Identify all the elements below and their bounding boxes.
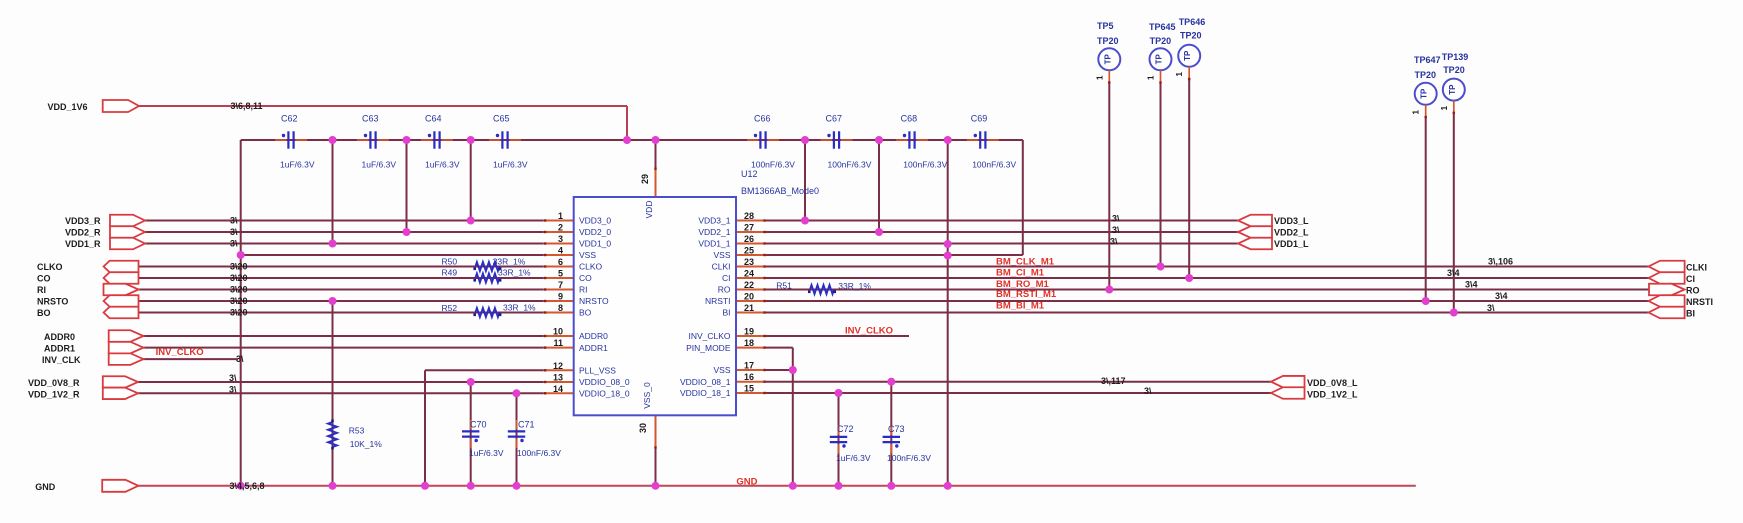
svg-text:R50: R50 (442, 257, 458, 267)
svg-text:6: 6 (558, 257, 563, 267)
svg-text:INV_CLKO: INV_CLKO (156, 347, 204, 358)
svg-text:3\: 3\ (230, 239, 238, 249)
svg-text:1uF/6.3V: 1uF/6.3V (493, 160, 528, 170)
svg-text:TP20: TP20 (1097, 36, 1119, 46)
svg-text:27: 27 (744, 223, 754, 233)
svg-text:GND: GND (35, 482, 56, 492)
svg-text:CI: CI (722, 273, 731, 283)
svg-text:GND: GND (736, 477, 757, 488)
svg-text:3\20: 3\20 (230, 285, 248, 295)
svg-text:19: 19 (744, 327, 754, 337)
svg-text:VDD3_0: VDD3_0 (579, 216, 611, 226)
svg-text:2: 2 (558, 223, 563, 233)
svg-text:ADDR0: ADDR0 (579, 331, 608, 341)
svg-text:TP: TP (1183, 50, 1192, 61)
svg-text:24: 24 (744, 269, 754, 279)
svg-text:18: 18 (744, 338, 754, 348)
svg-text:TP20: TP20 (1150, 36, 1172, 46)
svg-text:ADDR1: ADDR1 (579, 343, 608, 353)
svg-text:C70: C70 (470, 420, 487, 430)
svg-text:PLL_VSS: PLL_VSS (579, 366, 616, 376)
svg-text:3\: 3\ (230, 227, 238, 237)
svg-text:PIN_MODE: PIN_MODE (686, 343, 731, 353)
svg-text:3\: 3\ (229, 384, 237, 394)
svg-text:TP20: TP20 (1415, 70, 1437, 80)
svg-text:VDD1_L: VDD1_L (1274, 239, 1309, 249)
svg-text:VSS: VSS (713, 365, 730, 375)
svg-text:3\,117: 3\,117 (1101, 376, 1126, 386)
svg-text:33R_1%: 33R_1% (838, 281, 871, 291)
svg-text:3\: 3\ (1112, 225, 1120, 235)
svg-text:100nF/6.3V: 100nF/6.3V (828, 160, 872, 170)
svg-text:3: 3 (558, 234, 563, 244)
svg-text:NRSTO: NRSTO (579, 296, 609, 306)
svg-text:CLKO: CLKO (37, 262, 63, 272)
svg-text:1: 1 (1175, 72, 1184, 77)
svg-text:VDD_0V8_R: VDD_0V8_R (28, 378, 80, 388)
svg-text:C67: C67 (826, 114, 843, 124)
svg-text:VDD_1V6: VDD_1V6 (48, 102, 88, 112)
svg-text:20: 20 (744, 292, 754, 302)
svg-text:TP647: TP647 (1414, 55, 1441, 65)
svg-text:8: 8 (558, 303, 563, 313)
svg-text:BM_RO_M1: BM_RO_M1 (996, 279, 1050, 290)
svg-text:R49: R49 (442, 268, 458, 278)
svg-text:33R_1%: 33R_1% (503, 303, 536, 313)
svg-text:VDD2_1: VDD2_1 (698, 227, 730, 237)
svg-text:TP646: TP646 (1179, 17, 1206, 27)
svg-text:TP: TP (1103, 54, 1112, 65)
svg-text:13: 13 (553, 373, 563, 383)
svg-text:3\: 3\ (230, 216, 238, 226)
svg-text:TP139: TP139 (1442, 52, 1469, 62)
svg-text:TP645: TP645 (1149, 22, 1176, 32)
svg-text:1uF/6.3V: 1uF/6.3V (836, 453, 871, 463)
svg-text:100nF/6.3V: 100nF/6.3V (887, 453, 931, 463)
svg-text:R52: R52 (442, 303, 458, 313)
svg-text:3\20: 3\20 (230, 308, 248, 318)
svg-text:C64: C64 (425, 114, 442, 124)
svg-text:11: 11 (553, 338, 563, 348)
svg-text:C66: C66 (754, 114, 771, 124)
svg-text:VDD1_1: VDD1_1 (698, 239, 730, 249)
svg-text:1uF/6.3V: 1uF/6.3V (425, 160, 460, 170)
svg-text:C68: C68 (901, 114, 918, 124)
svg-text:U12: U12 (741, 169, 758, 179)
svg-text:22: 22 (744, 280, 754, 290)
svg-text:VDD_1V2_R: VDD_1V2_R (28, 390, 80, 400)
svg-text:CLKI: CLKI (712, 262, 731, 272)
svg-text:3\: 3\ (229, 373, 237, 383)
svg-text:NRSTI: NRSTI (1686, 297, 1713, 307)
svg-text:VDDIO_08_0: VDDIO_08_0 (579, 377, 630, 387)
svg-text:BM_BI_M1: BM_BI_M1 (996, 300, 1045, 311)
svg-text:BM_CLK_M1: BM_CLK_M1 (996, 257, 1055, 268)
svg-text:TP20: TP20 (1443, 65, 1465, 75)
svg-text:1: 1 (558, 211, 563, 221)
svg-text:BI: BI (722, 308, 730, 318)
svg-text:1: 1 (1440, 105, 1449, 110)
svg-text:3\6,8,11: 3\6,8,11 (231, 101, 263, 111)
svg-text:C69: C69 (971, 114, 988, 124)
svg-text:3\: 3\ (1144, 386, 1152, 396)
svg-text:26: 26 (744, 234, 754, 244)
svg-text:3\: 3\ (1110, 237, 1118, 247)
svg-text:VDD3_R: VDD3_R (65, 216, 101, 226)
svg-text:14: 14 (553, 384, 563, 394)
svg-text:VDDIO_18_1: VDDIO_18_1 (680, 388, 731, 398)
svg-text:VDD2_R: VDD2_R (65, 228, 101, 238)
svg-text:3\,106: 3\,106 (1488, 257, 1513, 267)
svg-text:CI: CI (1686, 274, 1695, 284)
svg-text:TP: TP (1448, 84, 1457, 95)
svg-text:C73: C73 (888, 424, 905, 434)
svg-text:4: 4 (558, 246, 563, 256)
svg-text:C72: C72 (837, 424, 854, 434)
svg-text:1: 1 (1147, 75, 1156, 80)
svg-text:ADDR1: ADDR1 (44, 344, 75, 354)
svg-text:33R_1%: 33R_1% (498, 268, 531, 278)
svg-text:VDD_0V8_L: VDD_0V8_L (1307, 378, 1358, 388)
svg-text:TP20: TP20 (1180, 31, 1202, 41)
svg-text:7: 7 (558, 280, 563, 290)
svg-text:1: 1 (1095, 75, 1104, 80)
svg-text:C65: C65 (493, 114, 510, 124)
svg-text:BM_RSTI_M1: BM_RSTI_M1 (996, 289, 1057, 300)
svg-text:TP5: TP5 (1097, 21, 1114, 31)
svg-text:21: 21 (744, 303, 754, 313)
svg-text:VDD_1V2_L: VDD_1V2_L (1307, 390, 1358, 400)
svg-text:INV_CLKO: INV_CLKO (688, 331, 730, 341)
svg-text:VSS: VSS (579, 250, 596, 260)
svg-text:5: 5 (558, 269, 563, 279)
svg-text:25: 25 (744, 246, 754, 256)
svg-text:VSS_0: VSS_0 (642, 382, 652, 409)
svg-text:VDDIO_18_0: VDDIO_18_0 (579, 389, 630, 399)
svg-text:1uF/6.3V: 1uF/6.3V (469, 448, 504, 458)
svg-text:RO: RO (718, 285, 731, 295)
svg-text:TP: TP (1155, 54, 1164, 65)
svg-text:100nF/6.3V: 100nF/6.3V (517, 448, 561, 458)
svg-text:23: 23 (744, 257, 754, 267)
svg-text:100nF/6.3V: 100nF/6.3V (972, 160, 1016, 170)
svg-text:TP: TP (1420, 88, 1429, 99)
svg-text:3\20: 3\20 (230, 296, 248, 306)
svg-text:3\4: 3\4 (1447, 268, 1460, 278)
svg-text:3\4: 3\4 (1465, 280, 1478, 290)
svg-text:1uF/6.3V: 1uF/6.3V (362, 160, 397, 170)
svg-text:29: 29 (640, 174, 650, 184)
svg-text:R51: R51 (776, 281, 792, 291)
svg-text:BM1366AB_Mode0: BM1366AB_Mode0 (741, 186, 819, 196)
svg-text:NRSTI: NRSTI (705, 296, 731, 306)
svg-text:C63: C63 (362, 114, 379, 124)
svg-text:R53: R53 (349, 426, 365, 436)
svg-text:VDD2_0: VDD2_0 (579, 227, 611, 237)
svg-text:3\: 3\ (1487, 303, 1495, 313)
svg-text:10: 10 (553, 327, 563, 337)
svg-text:33R_1%: 33R_1% (493, 257, 526, 267)
svg-text:BO: BO (37, 308, 51, 318)
svg-text:3\20: 3\20 (230, 262, 248, 272)
svg-text:3\: 3\ (236, 354, 244, 364)
svg-text:100nF/6.3V: 100nF/6.3V (903, 160, 947, 170)
svg-text:BM_CI_M1: BM_CI_M1 (996, 268, 1045, 279)
svg-text:INV_CLK: INV_CLK (42, 355, 81, 365)
svg-text:CO: CO (579, 273, 592, 283)
svg-text:RO: RO (1686, 286, 1700, 296)
svg-text:VDD3_L: VDD3_L (1274, 216, 1309, 226)
svg-text:C62: C62 (281, 114, 298, 124)
svg-text:VDD2_L: VDD2_L (1274, 228, 1309, 238)
svg-text:RI: RI (579, 285, 588, 295)
svg-text:10K_1%: 10K_1% (350, 439, 383, 449)
svg-text:VDDIO_08_1: VDDIO_08_1 (680, 377, 731, 387)
svg-text:1uF/6.3V: 1uF/6.3V (280, 160, 315, 170)
svg-text:BI: BI (1686, 309, 1695, 319)
svg-text:100nF/6.3V: 100nF/6.3V (751, 160, 795, 170)
svg-text:17: 17 (744, 361, 754, 371)
svg-text:ADDR0: ADDR0 (44, 332, 75, 342)
svg-text:12: 12 (553, 361, 563, 371)
svg-text:VDD1_R: VDD1_R (65, 239, 101, 249)
svg-text:15: 15 (744, 384, 754, 394)
svg-text:30: 30 (638, 423, 648, 433)
svg-text:RI: RI (37, 285, 46, 295)
svg-text:3\4,5,6,8: 3\4,5,6,8 (230, 481, 265, 491)
svg-text:16: 16 (744, 372, 754, 382)
svg-text:VDD1_0: VDD1_0 (579, 239, 611, 249)
svg-text:C71: C71 (518, 420, 535, 430)
svg-text:9: 9 (558, 292, 563, 302)
svg-text:CO: CO (37, 274, 51, 284)
svg-text:3\20: 3\20 (230, 273, 248, 283)
svg-text:CLKO: CLKO (579, 262, 603, 272)
svg-text:3\4: 3\4 (1495, 291, 1508, 301)
svg-text:28: 28 (744, 211, 754, 221)
svg-text:VSS: VSS (713, 250, 730, 260)
svg-text:CLKI: CLKI (1686, 263, 1707, 273)
svg-text:VDD3_1: VDD3_1 (698, 216, 730, 226)
svg-text:BO: BO (579, 308, 592, 318)
svg-text:1: 1 (1412, 110, 1421, 115)
svg-text:3\: 3\ (1112, 214, 1120, 224)
svg-text:VDD: VDD (644, 201, 654, 219)
svg-text:INV_CLKO: INV_CLKO (845, 326, 893, 337)
svg-text:NRSTO: NRSTO (37, 297, 68, 307)
